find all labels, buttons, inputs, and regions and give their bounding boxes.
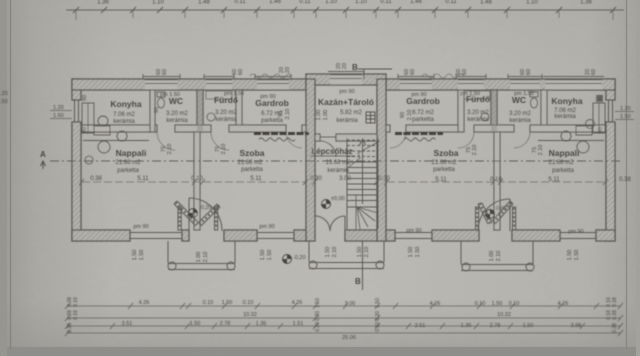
window right wall Konyha (608, 100, 610, 122)
room Furdo right (460, 91, 490, 123)
benchmark level marker Nappali right (486, 206, 507, 219)
top dimension ticks (73, 7, 616, 13)
top dimension drop ticks (76, 10, 613, 20)
interior door swings left unit (157, 132, 302, 150)
bottom wall segments right unit (386, 230, 395, 241)
washbasin and tub Furdo left (206, 91, 232, 121)
boiler symbol Kazan (366, 112, 375, 123)
washbasin and tub Furdo right (464, 91, 490, 121)
centre block east wall (377, 79, 386, 241)
windows in bottom wall (sill lines) (130, 230, 596, 241)
door dim 90/2.10 WC wall left (154, 107, 160, 113)
dark scan band at bottom (0, 347, 640, 356)
open double door leaves (V) in Nappali left (174, 201, 220, 226)
stair landing line (347, 206, 378, 208)
toilet WC right (530, 92, 538, 108)
door dim 75/2.10 Szoba left (215, 144, 227, 155)
small vertical dims above top wall (156, 63, 597, 75)
stair winder treads fan (357, 207, 378, 229)
window gaps cleared in top wall (145, 75, 602, 89)
door dim 75/2.10 Nappali right (532, 145, 544, 156)
plumbing wall WC-Furdo left (197, 90, 203, 132)
door dim 90/2.10 Gardrob right (400, 110, 413, 121)
lintel bar on wall below Gardrob left (254, 134, 309, 142)
rotated 90 labels beside left wall window (82, 95, 88, 133)
door dim 1.50/2.10 centre west (325, 247, 338, 258)
terrace slab left unit (168, 241, 235, 270)
window top wall Furdo left (206, 79, 232, 81)
bottom dim row 1 texts (139, 300, 569, 307)
partition Nappali-Szoba left (194, 132, 200, 230)
window bottom Szoba left (257, 232, 294, 234)
interior wall below top rooms, left unit (81, 125, 150, 132)
right margin border line (626, 0, 628, 349)
room Konyha right (551, 96, 582, 120)
room Konyha left (110, 99, 141, 125)
left page edge shadow (0, 0, 7, 356)
benchmark level marker Lepcsohaz (322, 196, 345, 209)
wall Furdo-Gardrob (236, 90, 242, 132)
interior dim texts left unit (90, 176, 390, 182)
kitchen counter left (82, 103, 149, 141)
bottom dim row 3 texts (122, 321, 582, 329)
window bottom Szoba right (395, 232, 432, 234)
lintel bar on wall below Gardrob right (395, 134, 443, 142)
door dim 1.00/2.10 bottom right (489, 251, 502, 262)
plumbing wall shading right (491, 90, 497, 132)
door leaf posts right (476, 207, 516, 230)
bottom dim row 2 line (67, 317, 621, 319)
terrace slab right unit (461, 241, 534, 271)
staircase (345, 138, 380, 229)
door leaf posts left (178, 207, 218, 230)
window openings in left and right exterior walls (72, 100, 615, 122)
benchmark level marker terrace left (283, 255, 306, 264)
door dim 75/2.10 Szoba right (466, 145, 478, 156)
window bottom Nappali right (560, 232, 596, 234)
window top wall WC right (510, 79, 540, 81)
handwritten note above top wall right (422, 74, 464, 78)
stair break line (345, 141, 380, 170)
wall Gardrob-Furdo right (458, 90, 464, 132)
paper noise texture (0, 0, 1, 1)
bottom rows end ticks left (65, 303, 623, 336)
room Gardrob right (406, 92, 440, 123)
centre entrance french doors arcs (315, 216, 345, 231)
window top wall Konyha right (545, 79, 602, 81)
door from stair to Kazan (320, 137, 336, 157)
stair up arrow (362, 139, 364, 204)
room Gardrob left (255, 94, 289, 124)
terrace door left unit with swing (189, 198, 222, 231)
bottom dim row 1 line (67, 305, 621, 307)
room WC right (509, 91, 534, 124)
window top wall Gardrob right (400, 79, 432, 81)
rotated 90 labels beside right wall window (598, 95, 604, 133)
room Nappali left (115, 148, 146, 174)
centre block west wall (306, 79, 315, 241)
bottom rows intermediate ticks (110, 303, 599, 329)
plumbing wall shading left (197, 90, 203, 132)
section marker B top (352, 63, 392, 79)
floor lamp circle Nappali left lower (85, 156, 93, 164)
bottom wall centre block stair side (345, 230, 377, 241)
wall Kazan-Lepcsohaz (315, 134, 320, 141)
room Szoba right (431, 148, 458, 173)
interior partition walls (double line) (81, 90, 606, 230)
door dim 1.00/2.10 bottom left (196, 252, 209, 263)
wall Konyha-WC (150, 90, 155, 132)
section marker B bottom (355, 241, 363, 290)
window left wall Konyha (74, 100, 76, 122)
room Lepcsohaz (310, 147, 355, 174)
top dimension line (66, 9, 624, 11)
floor lamp circle Nappali right (577, 141, 589, 153)
floor lamp circle Nappali left (98, 141, 110, 153)
window top wall Gardrob left (257, 79, 289, 81)
room Furdo left (214, 91, 244, 123)
stacked small dims centre-left of bottom rows (315, 298, 321, 332)
stacked small dims left end of bottom rows (67, 297, 79, 333)
room Szoba left (237, 148, 264, 173)
section line A-A (50, 160, 622, 162)
top exterior wall right unit (386, 79, 615, 90)
interior dim ticks (79, 179, 608, 185)
window dim 1.50/1.50 bottom Nappali right (567, 250, 580, 261)
right page edge shadow (636, 0, 640, 356)
interior wall below top rooms, right unit (386, 125, 390, 132)
window dim 1.20/1.50 left wall (50, 105, 72, 119)
bottom wall segments left unit (72, 230, 130, 241)
kitchen counter right (538, 95, 605, 141)
wall WC-Konyha right (541, 90, 547, 132)
left exterior wall (72, 79, 81, 100)
door dim 90/2.10 Gardrob left (278, 109, 291, 120)
top exterior wall left unit (72, 79, 306, 90)
window dim 1.50/1.50 bottom Szoba right (408, 247, 421, 258)
room WC left (160, 92, 188, 124)
windows in top wall (sill lines above wall) (143, 72, 604, 84)
window top wall Furdo right (458, 79, 484, 81)
centre block top wall (306, 74, 386, 85)
right exterior wall (606, 79, 615, 100)
left margin cut dimension texts (0, 91, 8, 105)
room Kazan+Tarolo (318, 89, 374, 124)
bottom dim row 2 texts (243, 312, 511, 318)
window dim 1.50/1.50 bottom Szoba left (260, 250, 273, 261)
stacked small dims right end of bottom rows (606, 297, 618, 333)
stacked small dims centre-right of bottom rows (375, 298, 381, 332)
window top wall Kazan centre (330, 74, 362, 76)
terrace slab centre (309, 241, 384, 269)
open double door leaves (V) in Nappali right (478, 201, 513, 224)
dim 100/100 Kazan (316, 110, 329, 121)
toilet WC left (157, 92, 165, 108)
door dim 75/2.10 Nappali left (161, 144, 173, 155)
partition Szoba-Nappali right (494, 132, 500, 230)
left margin border line (10, 0, 12, 349)
benchmark level marker Nappali left (189, 205, 212, 218)
window dim 1.20/1.50 right wall (615, 106, 634, 120)
interior dim line right unit (387, 181, 605, 183)
door dim 1.50/2.10 centre east (357, 247, 370, 258)
bottom dim row 3 line (67, 325, 621, 327)
window top wall WC left (145, 79, 178, 81)
window bottom Nappali left (130, 232, 182, 234)
interior dim line left unit (82, 181, 305, 183)
handwritten note above top wall left (250, 74, 292, 78)
plumbing wall Furdo-WC right (491, 90, 497, 132)
bottom dim row 4 line (67, 332, 621, 334)
interior door swings right unit (390, 132, 530, 148)
interior dim texts right unit (435, 177, 631, 183)
top dimension numbers (cut by page edge) (97, 0, 592, 5)
entrance door right unit with swing (478, 199, 510, 231)
window dim 1.50/1.50 bottom Nappali left (132, 250, 145, 261)
section marker A left (40, 150, 46, 169)
room Nappali right (548, 148, 579, 174)
